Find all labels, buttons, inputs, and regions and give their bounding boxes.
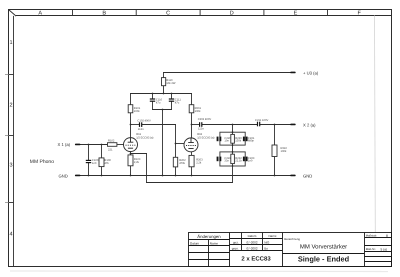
svg-text:MM Phono: MM Phono	[30, 159, 54, 165]
svg-text:Bezeichnung: Bezeichnung	[284, 238, 300, 241]
svg-text:Blatt-Nr.:: Blatt-Nr.:	[366, 248, 377, 251]
svg-text:47u: 47u	[175, 101, 180, 104]
svg-text:2 x ECC83: 2 x ECC83	[241, 255, 271, 262]
svg-text:8: 8	[386, 234, 388, 238]
svg-text:E: E	[294, 10, 298, 16]
svg-text:1n0: 1n0	[248, 160, 253, 163]
svg-text:2,2k: 2,2k	[196, 162, 202, 165]
svg-text:470k: 470k	[179, 162, 185, 165]
svg-text:C211 100V: C211 100V	[255, 119, 268, 122]
svg-text:10n: 10n	[224, 140, 229, 143]
svg-text:1/2 ECC83 (a): 1/2 ECC83 (a)	[197, 136, 214, 139]
svg-text:33n: 33n	[224, 160, 229, 163]
svg-text:X 2 (a): X 2 (a)	[303, 122, 316, 127]
svg-text:10k 2W: 10k 2W	[166, 82, 176, 85]
svg-text:Maßstab:: Maßstab:	[366, 235, 377, 238]
svg-text:Änderungen: Änderungen	[197, 234, 221, 239]
svg-text:1: 1	[9, 40, 12, 46]
svg-text:Bo: Bo	[264, 247, 268, 251]
svg-text:X 1 (a): X 1 (a)	[58, 142, 71, 147]
svg-text:Datum: Datum	[190, 241, 200, 245]
svg-text:150k: 150k	[235, 140, 241, 143]
svg-text:B: B	[102, 10, 106, 16]
svg-text:2,2k: 2,2k	[134, 161, 140, 164]
svg-text:221: 221	[108, 149, 113, 152]
svg-text:113n: 113n	[198, 128, 204, 131]
svg-text:1/2 ECC83 (a): 1/2 ECC83 (a)	[136, 137, 153, 140]
svg-text:1n0: 1n0	[92, 162, 97, 165]
svg-text:Name: Name	[268, 234, 276, 238]
svg-text:113n: 113n	[138, 128, 144, 131]
svg-text:gepr.: gepr.	[232, 247, 239, 251]
svg-text:C: C	[166, 10, 170, 16]
svg-text:5 (a): 5 (a)	[381, 248, 388, 252]
svg-text:07-2002: 07-2002	[246, 241, 257, 245]
svg-text:100k: 100k	[281, 150, 287, 153]
svg-text:47u: 47u	[156, 101, 161, 104]
svg-text:+ U3 (a): + U3 (a)	[303, 70, 319, 75]
svg-text:680p: 680p	[248, 140, 254, 143]
svg-text:Single - Ended: Single - Ended	[298, 255, 350, 264]
svg-text:07-2002: 07-2002	[246, 247, 257, 251]
svg-text:C202 400V: C202 400V	[198, 118, 212, 121]
svg-text:Rö1: Rö1	[136, 133, 141, 136]
svg-text:Rö2: Rö2	[197, 133, 202, 136]
svg-text:100k: 100k	[195, 110, 201, 113]
svg-text:2: 2	[9, 103, 12, 109]
svg-text:Name: Name	[210, 241, 219, 245]
svg-text:100k: 100k	[134, 110, 140, 113]
svg-text:3: 3	[9, 163, 12, 169]
svg-text:A: A	[38, 10, 42, 16]
svg-text:NiG: NiG	[264, 241, 270, 245]
svg-text:GND: GND	[59, 173, 68, 178]
svg-text:gez.: gez.	[233, 241, 239, 245]
svg-text:47k: 47k	[104, 162, 109, 165]
svg-text:MM Vorverstärker: MM Vorverstärker	[300, 244, 347, 251]
svg-text:22,1k: 22,1k	[235, 160, 242, 163]
svg-text:D: D	[230, 10, 234, 16]
svg-text:C102 400V: C102 400V	[137, 119, 151, 122]
svg-text:Datum: Datum	[248, 234, 257, 238]
svg-text:R102: R102	[108, 140, 115, 143]
svg-text:4: 4	[9, 232, 12, 238]
svg-text:GND: GND	[303, 174, 312, 179]
